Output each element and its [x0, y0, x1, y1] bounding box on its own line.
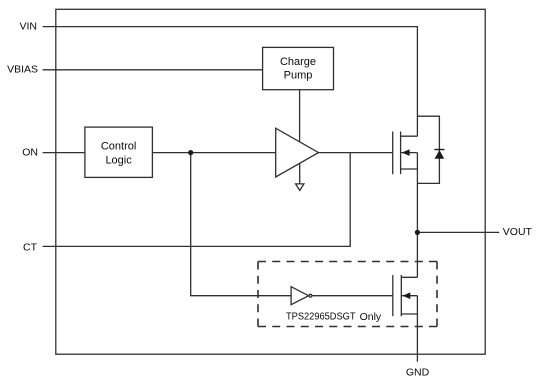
- svg-text:Charge: Charge: [280, 56, 316, 68]
- svg-text:Only: Only: [360, 311, 382, 323]
- svg-text:VOUT: VOUT: [503, 226, 533, 238]
- svg-text:VIN: VIN: [19, 21, 37, 33]
- svg-text:VBIAS: VBIAS: [7, 64, 38, 76]
- svg-text:Pump: Pump: [284, 70, 313, 82]
- svg-text:TPS22965DSGT: TPS22965DSGT: [286, 312, 356, 323]
- svg-text:ON: ON: [22, 146, 38, 158]
- svg-text:Control: Control: [101, 140, 136, 152]
- svg-text:Logic: Logic: [105, 155, 132, 167]
- svg-text:GND: GND: [406, 367, 430, 379]
- svg-text:CT: CT: [23, 241, 38, 253]
